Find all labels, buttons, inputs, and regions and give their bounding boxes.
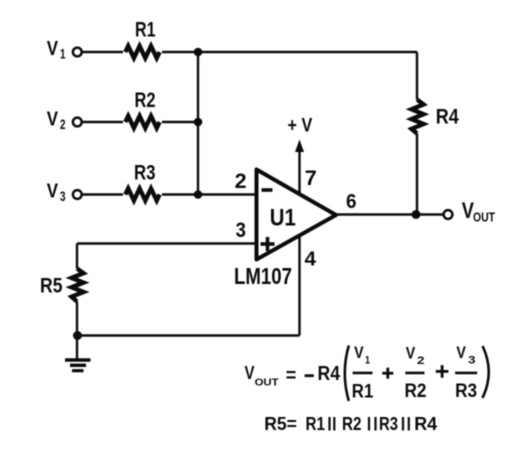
svg-text:R4: R4 [318, 363, 341, 385]
svg-text:LM107: LM107 [234, 263, 292, 289]
svg-text:+ V: + V [288, 116, 313, 137]
svg-text:V: V [47, 37, 59, 60]
svg-text:R5: R5 [40, 275, 63, 298]
svg-text:V: V [47, 180, 59, 203]
svg-text:V: V [47, 108, 59, 131]
svg-text:1: 1 [60, 46, 66, 62]
svg-text:R3: R3 [134, 161, 156, 185]
svg-text:R3: R3 [455, 381, 477, 402]
svg-text:3: 3 [60, 188, 66, 204]
svg-text:2: 2 [60, 116, 66, 132]
svg-text:2: 2 [235, 169, 247, 193]
svg-text:4: 4 [305, 247, 317, 270]
svg-text:V: V [354, 343, 364, 362]
svg-text:3: 3 [468, 355, 476, 367]
svg-text:V: V [245, 363, 255, 383]
svg-text:6: 6 [346, 190, 357, 213]
svg-text:R4: R4 [414, 413, 438, 434]
svg-text:R2: R2 [342, 413, 362, 434]
svg-text:R4: R4 [436, 106, 459, 129]
svg-text:V: V [456, 343, 466, 362]
svg-text:7: 7 [305, 166, 317, 190]
svg-text:3: 3 [236, 219, 246, 242]
svg-text:V: V [406, 344, 416, 363]
svg-text:OUT: OUT [255, 377, 280, 389]
svg-text:R1: R1 [306, 413, 326, 434]
svg-text:R2: R2 [405, 381, 427, 402]
svg-text:R1: R1 [135, 18, 156, 42]
svg-text:U1: U1 [270, 205, 296, 232]
svg-text:OUT: OUT [473, 210, 495, 224]
svg-text:2: 2 [417, 355, 425, 367]
svg-text:1: 1 [365, 355, 370, 367]
svg-text:R2: R2 [135, 88, 156, 112]
svg-text:R5=: R5= [264, 413, 297, 434]
svg-text:=: = [286, 365, 297, 386]
svg-text:R1: R1 [352, 382, 374, 403]
svg-text:R3: R3 [379, 413, 398, 434]
